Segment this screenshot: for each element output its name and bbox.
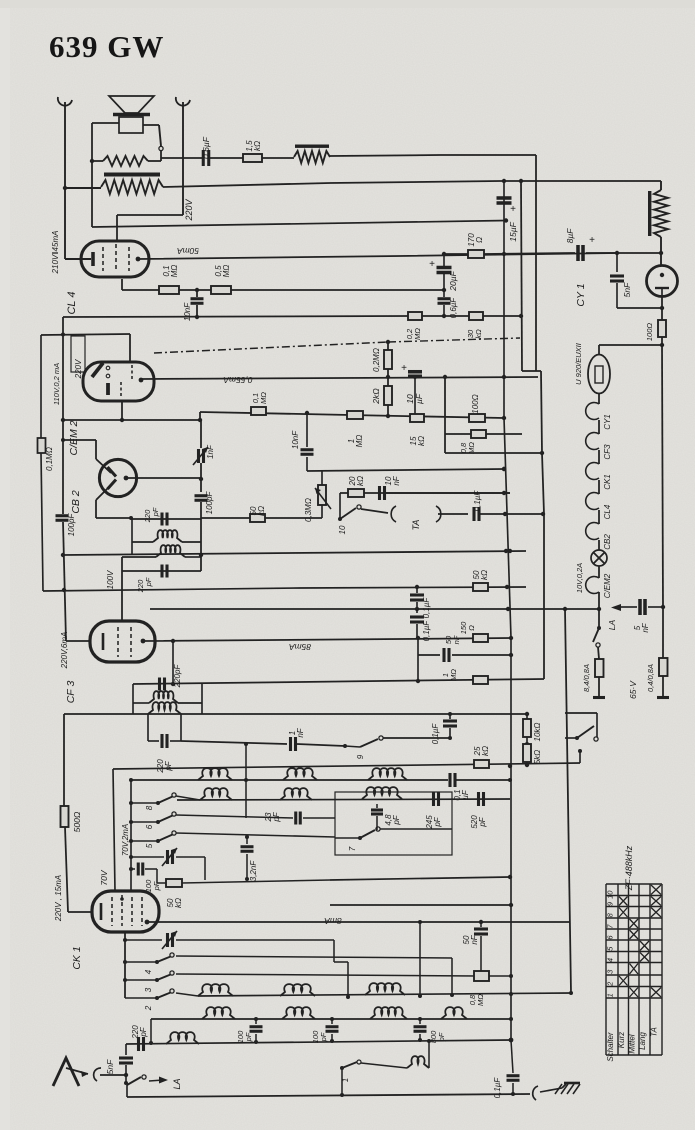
capacitor 5nF la [638,599,642,615]
switch 1 [340,1066,344,1070]
wire trimmer feedback [333,940,335,962]
svg-text:100pF: 100pF [67,513,76,537]
wire left edge [62,317,64,514]
coil bot r2a [202,1007,235,1019]
capacitor 220pF tank [147,714,149,741]
tube CY1 [647,266,678,297]
junction rail316 c [519,314,523,318]
capacitor 0,1uF a [416,587,418,593]
svg-text:2kΩ: 2kΩ [371,388,381,405]
wire V420 anode tap [419,922,421,996]
CK1 cathode [100,903,103,920]
junction V521 top [519,179,523,183]
junction rail316 a [195,315,199,319]
wire CK1 cathode lead [68,911,92,913]
wire rail764 [113,763,580,769]
junction eye bottom [120,418,124,422]
wire V445 [444,377,446,453]
capacitor 0,6uF [161,157,203,159]
resistor 1M agc [473,676,488,684]
junction sw5 [129,839,133,843]
svg-text:25kΩ: 25kΩ [473,746,490,757]
antenna [53,1058,79,1086]
svg-text:8: 8 [145,805,154,810]
junction bot r1 [450,993,454,997]
capacitor 100pF osc [200,479,202,492]
svg-text:0,4/0,8A: 0,4/0,8A [646,664,655,692]
junction CY 308 [660,306,664,310]
capacitor 20uF [437,266,452,270]
capacitor 245pF [432,792,435,806]
speaker [109,96,154,113]
svg-text:50nF: 50nF [444,635,461,644]
wire HT rail R2 [330,181,661,183]
resistor 0,1M left [38,438,46,453]
coil ant [166,1032,199,1044]
junction anode rail b [416,636,420,640]
IF1 bot wire [122,570,201,572]
resistor 1M avc2 [347,411,363,419]
trimmer bank [131,856,164,858]
wire CK1 grid1 feed [113,769,115,891]
svg-text:CF3: CF3 [603,444,612,460]
svg-text:10nF: 10nF [183,302,192,321]
svg-text:Mittel: Mittel [628,1034,637,1053]
wire eye anode rail [142,377,538,379]
coil bank r2b [280,788,312,800]
wire CF3 cathode lead [66,640,90,642]
svg-text:50kΩ: 50kΩ [472,570,489,580]
junction rail587 417 [415,585,419,589]
capacitor 10nF ta [378,486,381,500]
svg-text:CL4: CL4 [603,504,612,519]
resistor 50k cb2 [201,517,250,519]
junction V445 top [443,375,447,379]
wire V504 low [504,418,511,638]
resistor 0,1M [122,289,159,291]
switch table grid [605,884,607,1055]
transformer core bar [104,173,160,177]
coil bot r2d [441,1007,467,1019]
svg-text:LA: LA [607,619,617,630]
resistor 30k rail316 [469,312,483,320]
coil bot r1c [365,983,405,995]
wire rail681 [133,679,544,684]
svg-text:1: 1 [606,993,615,997]
svg-text:0,6µF: 0,6µF [449,297,458,319]
wire rail905 [330,904,511,906]
capacitor 23pF [294,812,297,825]
wire mains left vertical [64,102,66,259]
wire rail y316 [63,316,408,317]
wire to lamp [599,344,662,346]
resistor 0,8M [471,430,486,438]
svg-text:CF 3: CF 3 [65,681,77,704]
svg-text:TA: TA [411,520,421,531]
resistor 100 heater [658,320,666,337]
eye cathode [106,383,110,395]
wire V663 [662,345,663,607]
CB2 grid ticks [108,467,117,477]
capacitor 0,1uF osc [448,773,451,787]
svg-text:0,3MΩ: 0,3MΩ [304,498,313,522]
svg-text:1: 1 [341,1078,350,1082]
junction rail714 a [525,712,529,716]
svg-text:Kurz: Kurz [617,1032,626,1048]
CK1 dots [120,897,124,901]
svg-text:+: + [510,204,516,215]
wire CK1 anode rail [147,921,570,923]
coil bank r1a [198,768,232,780]
svg-text:0,1µF: 0,1µF [422,620,431,642]
heater bump CK1 [586,463,599,480]
resistor 170 [444,253,468,255]
svg-text:CY1: CY1 [603,414,612,430]
capacitor 100pF bot1 [255,1019,257,1024]
svg-text:0,1µF: 0,1µF [473,490,482,512]
junction 10uF [413,375,417,379]
svg-text:LA: LA [172,1078,182,1089]
svg-text:3,2nF: 3,2nF [249,860,258,882]
wire ant lead [100,1074,126,1076]
switch heater [598,609,600,628]
svg-text:CB2: CB2 [603,534,612,550]
capacitor 5nF cy [616,253,618,272]
capacitor 3,2nF [246,837,248,844]
svg-text:110V,0,2 mA: 110V,0,2 mA [52,363,61,405]
switch 9 [343,744,347,748]
coil bot r1b [280,984,315,996]
coil bank r2c [362,787,402,799]
junction avc end [502,416,506,420]
svg-text:70V,2mA: 70V,2mA [121,824,130,856]
switch LA [127,1077,141,1085]
svg-text:0,1µF: 0,1µF [431,723,440,745]
wire speaker loop [92,122,119,124]
junction anode rail a [171,639,175,643]
svg-text:8µF: 8µF [565,228,575,244]
IF1 coil1 [132,541,153,543]
junction rail471 [502,467,506,471]
switch 6 [156,820,160,824]
coil bot r2c [370,1007,407,1019]
junction chain [386,340,390,344]
CL4 cathode [91,252,95,266]
wire V452 sw4 [451,958,453,995]
mains terminal hook left [58,97,72,106]
junction V504 377 [502,375,506,379]
mains terminal hook right [176,97,190,106]
svg-text:7: 7 [348,846,357,851]
svg-text:85mA: 85mA [289,642,312,652]
tube CF3 [90,621,155,662]
CY1 cathode [655,287,669,289]
resistor 2k vert [387,377,389,386]
junction anode rail c [509,636,513,640]
svg-text:30kΩ: 30kΩ [466,329,483,339]
capacitor 0,6uF b [443,290,445,297]
wire osc tank row [198,993,571,996]
wire rail714 [64,713,527,715]
switch 8 [156,801,160,805]
tube CB2 [99,459,136,496]
junction ladder b [386,414,390,418]
chassis arc [533,1086,538,1100]
wire HT return rail [92,221,506,228]
heater bump CB2 [586,523,599,540]
resistor 150 [473,634,488,642]
switch 4 [123,960,127,964]
resistor 0,2M vert [387,342,389,350]
capacitor 50nF [417,638,419,681]
junction eye rail [61,333,65,337]
eye target [92,363,103,377]
wire 220V tap vertical [182,102,184,215]
svg-text:220pF: 220pF [173,664,182,689]
capacitor 15uF [503,181,505,254]
svg-text:0,2MΩ: 0,2MΩ [372,348,381,372]
boxed label 220V [71,336,85,372]
TA jacks [361,509,388,513]
svg-text:100V: 100V [106,570,115,589]
switch 2 [125,997,157,999]
wire CL4 bottom lead [121,279,123,290]
resistor 25k [474,760,489,768]
heater bump C/EM2 [598,566,600,578]
wire CL4 anode rail [138,253,661,259]
switch 10 [339,493,341,519]
wire osc grid row [131,779,448,781]
junction 345 [660,343,664,347]
svg-text:9: 9 [356,754,365,759]
wire rail471 [307,469,504,471]
junction heater 609 [597,607,601,611]
coil bank r2a [200,788,232,800]
svg-text:50kΩ: 50kΩ [249,506,266,516]
wire rail609 [150,608,599,610]
capacitor 100pF left [56,514,69,517]
junction 10nF top [195,288,199,292]
junction speaker res [90,159,94,163]
CB2 anode dot [124,476,129,481]
switch 5 [156,839,160,843]
capacitor 8uF [576,245,580,261]
wire rail453 [445,452,542,454]
junction ta end [541,512,545,516]
svg-text:Lang: Lang [638,1032,647,1050]
svg-text:50nF: 50nF [462,934,479,944]
IF1 top wire [132,518,201,520]
IF2 sides [132,684,134,714]
svg-text:8mA: 8mA [324,916,342,926]
IF1 sides [200,519,202,571]
junction trim [129,855,133,859]
wire rail420 [63,419,200,421]
junction V246 [244,778,248,782]
junction rail681 b [171,682,175,686]
junction sw6 [129,820,133,824]
resistor CY zigzag [660,181,662,190]
capacitor 520pF [477,792,480,806]
CK1 grids [111,897,113,926]
capacitor 0,1uF ta [472,507,475,521]
junction 20uF bot [442,288,446,292]
junction 20uF top [442,252,446,256]
capacitor 5nF ant [125,1044,127,1055]
wire AVC rail [200,412,504,418]
tube CL4 [81,241,149,277]
svg-text:10µF: 10µF [405,393,424,404]
wire bot row3 [126,1040,511,1044]
junction ant 2 [124,1081,128,1085]
antenna hook [94,1068,101,1081]
junction CB2 grid [61,438,65,442]
wire V429 [428,1041,430,1068]
svg-text:Schalter: Schalter [606,1032,615,1062]
svg-text:100pF: 100pF [205,491,214,515]
resistor 8,4 [598,647,599,659]
junction IF1 [199,553,203,557]
svg-text:220V: 220V [184,198,194,221]
coil box [335,792,452,855]
wire bot row2 [151,1018,511,1020]
capacitor 10nF grid [196,290,198,297]
svg-text:500Ω: 500Ω [72,811,82,832]
junction rail764 a [525,763,529,767]
svg-text:65·V: 65·V [628,680,638,699]
CF3 anode dot [141,639,146,644]
svg-text:+: + [429,259,435,270]
capacitor 1nF bank [181,741,287,744]
wire IF2 hot [172,641,174,684]
wire V511 low2 [510,638,512,1040]
wire CK1 bottom [124,932,126,998]
tube CK1 [92,891,159,932]
svg-text:100Ω: 100Ω [471,394,480,413]
coil bank r1c [368,768,407,780]
ground [562,1084,566,1088]
capacitor 4,8pF [376,804,378,808]
wire eye top rail [41,334,130,335]
svg-text:6: 6 [145,824,154,829]
pot 0,3M [321,471,323,485]
svg-text:2: 2 [606,981,615,987]
junction left 585 [62,588,66,592]
svg-text:CL 4: CL 4 [66,291,78,314]
svg-text:10nF: 10nF [291,430,300,449]
svg-text:10: 10 [606,890,615,899]
trimmer ck1 bot [125,939,162,941]
svg-text:70V: 70V [99,869,109,885]
capacitor 0,1uF bank [449,714,451,719]
junction V504 548 [504,549,508,553]
svg-text:20µF: 20µF [448,270,458,291]
CL4 anode dot [136,257,141,262]
svg-text:TA: TA [650,1027,659,1037]
junction rail681 a [416,679,420,683]
svg-text:0,6µF: 0,6µF [201,136,211,159]
wire 100V grid [121,557,123,621]
IF1 coil2 [122,556,156,558]
wire V521 [521,181,522,371]
junction rail994 [569,991,573,995]
IF2 coil1 [133,702,149,704]
junction rail555 b [508,549,512,553]
resistor 500 vert [63,714,65,806]
junction V504 514 [503,512,507,516]
IF1 cap1 [160,513,163,526]
heater bump CL4 [586,493,599,510]
svg-text:10: 10 [338,525,347,534]
svg-text:50kΩ: 50kΩ [166,898,183,908]
dial lamp [591,550,607,566]
IF2 cap [158,678,161,691]
capacitor 10nF cb2 [306,413,308,447]
svg-text:CK 1: CK 1 [71,946,83,969]
wire loop 155 down [535,155,537,371]
svg-text:+: + [589,235,595,246]
resistor 0,5M [211,286,231,294]
junction V504 469 [502,467,506,471]
svg-text:0,1MΩ: 0,1MΩ [45,447,54,471]
resistor 0,1M avc [251,407,266,415]
svg-text:0,55mA: 0,55mA [223,375,253,385]
wire CB2 anode [126,477,201,479]
svg-text:4,8pF: 4,8pF [384,814,401,826]
lamp U920 [588,355,610,394]
junction rail453 [540,451,544,455]
junction HT return [504,218,508,222]
svg-text:CB 2: CB 2 [70,490,82,514]
wire lamp to bumps [598,394,600,405]
eye anode dot [139,378,144,383]
IF2 coil2 on rail [148,702,181,714]
CF3 cathode [102,633,105,650]
wire CY down [661,297,663,345]
resistor speaker zigzag [92,160,103,162]
resistor 1,5k [243,154,262,162]
svg-text:50mA: 50mA [177,246,200,256]
resistor 10k [526,714,528,719]
resistor hum zigzag [294,151,330,163]
wire between [179,289,211,291]
CF3 grids [117,627,119,657]
svg-text:4: 4 [144,969,153,974]
capacitor 100pF bot2 [331,1019,333,1024]
junction rail420 [198,418,202,422]
svg-text:2: 2 [144,1005,153,1011]
svg-text:0,5MΩ: 0,5MΩ [214,265,231,278]
table X marks [619,897,628,906]
wire V41 grid leak [40,335,42,438]
junction V504 609 [506,607,510,611]
svg-text:0,8MΩ: 0,8MΩ [468,994,485,1006]
coil bank r1b [283,768,317,780]
svg-text:5kΩ: 5kΩ [533,750,542,765]
capacitor 800pF [419,1019,421,1024]
resistor 5k [523,744,531,762]
junction ladder a [386,375,390,379]
svg-text:15µF: 15µF [508,221,518,241]
svg-text:5: 5 [145,843,154,848]
capacitor 100pF ck [131,868,135,870]
svg-text:10nF: 10nF [384,475,401,485]
coil sw1 [407,1056,429,1068]
junction CB2 anode col [199,477,203,481]
svg-text:CK1: CK1 [603,474,612,490]
wire V565 [565,609,571,993]
junction mains left [63,186,67,190]
